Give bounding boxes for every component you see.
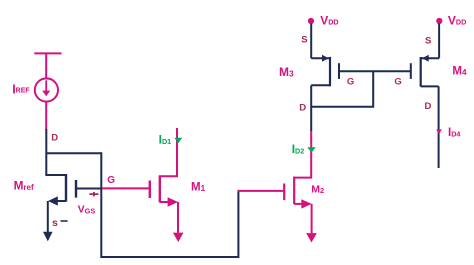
transistor M2 xyxy=(284,131,312,209)
wire Mref drain to gate node xyxy=(47,152,102,154)
svg-text:VGS: VGS xyxy=(78,205,96,216)
current arrow ID1 xyxy=(174,138,182,144)
VDD dot M3 xyxy=(308,18,314,24)
wire IREF out xyxy=(45,101,47,129)
wire gate node down and to M2 gate xyxy=(101,152,238,257)
svg-text:s: s xyxy=(52,217,58,229)
svg-text:S: S xyxy=(425,36,431,47)
wire M2 gate feed xyxy=(238,190,284,192)
svg-text:ID4: ID4 xyxy=(448,127,460,139)
wire G line to M1 gate xyxy=(102,187,150,189)
wire to Mref drain xyxy=(46,129,66,175)
wire M1 source down arrow xyxy=(173,202,184,242)
wire VDD to M4 source xyxy=(438,24,440,59)
current arrow ID2 xyxy=(307,147,315,152)
wire M2 source down arrow xyxy=(306,204,317,243)
current arrow ID4 xyxy=(436,129,442,134)
svg-text:M2: M2 xyxy=(311,184,324,196)
svg-text:G: G xyxy=(394,77,401,88)
minus sign xyxy=(61,220,68,222)
wire gate line M3-M4 xyxy=(339,70,411,72)
svg-text:G: G xyxy=(107,175,115,186)
svg-text:D: D xyxy=(425,101,432,112)
wire M3 drain-gate connect xyxy=(311,71,373,106)
svg-text:D: D xyxy=(299,103,306,114)
svg-text:S: S xyxy=(301,34,307,45)
transistor M1 xyxy=(150,128,178,207)
transistor M4 xyxy=(411,55,439,87)
wire M3 drain to M2 drain (navy part) xyxy=(310,85,312,131)
supply rail bar xyxy=(34,53,61,78)
wire M4 drain output xyxy=(438,86,440,168)
wire VDD to M3 source xyxy=(310,24,312,59)
transistor Mref xyxy=(48,174,102,206)
label + xyxy=(89,192,98,197)
transistor M3 xyxy=(311,55,339,87)
svg-text:G: G xyxy=(347,76,354,87)
svg-text:D: D xyxy=(51,132,58,143)
ground arrow Mref source xyxy=(43,201,53,241)
svg-text:M1: M1 xyxy=(191,182,206,194)
VDD dot M4 xyxy=(436,18,442,24)
current source IREF xyxy=(35,78,58,101)
svg-text:M4: M4 xyxy=(452,66,467,78)
